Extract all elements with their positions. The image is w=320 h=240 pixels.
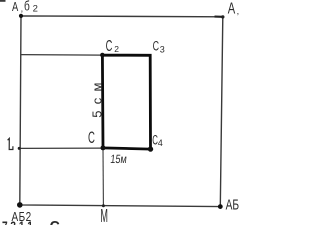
svg-text:2: 2 [114,44,119,54]
svg-text:А: А [228,0,235,17]
svg-text:,: , [237,6,240,16]
svg-text:С: С [88,128,95,146]
svg-text:4: 4 [158,138,163,148]
svg-text:5см: 5см [89,76,104,118]
svg-text:С: С [106,37,113,55]
svg-text:3: 3 [160,44,165,54]
svg-text:А: А [12,0,19,14]
svg-text:2: 2 [33,4,38,15]
svg-text:15м: 15м [110,153,128,166]
svg-text:М: М [100,207,108,225]
svg-text:б: б [24,0,30,14]
svg-text:,: , [21,4,24,14]
svg-text:С: С [50,220,61,225]
svg-text:7.3.1.1.: 7.3.1.1. [2,219,36,225]
svg-text:С: С [153,40,159,54]
svg-text:АБ: АБ [226,195,239,213]
